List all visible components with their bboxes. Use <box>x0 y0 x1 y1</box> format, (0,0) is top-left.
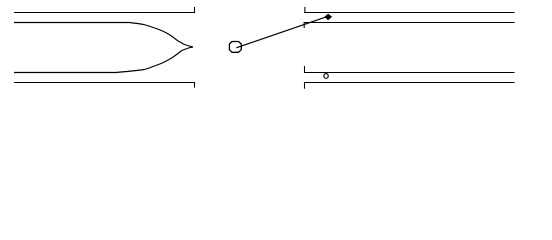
wire: right upper pair, second conductor <box>304 22 515 24</box>
contact diamond (filled) on upper right pair <box>325 14 332 20</box>
right upper first conductor start tick (up) <box>304 7 306 13</box>
right lower first conductor start tick (up) <box>304 66 306 73</box>
wire: left pair upper outer conductor <box>14 12 194 14</box>
wire: left lower outer end tick (down) <box>194 82 196 88</box>
right lower second conductor start tick (down) <box>304 82 306 89</box>
switch pivot circle <box>229 42 241 53</box>
wire: right upper pair, first conductor <box>304 12 515 14</box>
switch blade (from pivot to upper contact) <box>236 16 327 47</box>
right upper second conductor start tick (down) <box>303 22 305 28</box>
wire: left upper outer end tick (up) <box>194 7 196 13</box>
wire: left pair lower inner conductor curving to point <box>14 47 193 73</box>
wire: left pair upper inner conductor curving to point <box>14 23 193 48</box>
wire: right lower pair, first conductor <box>304 72 515 74</box>
wire: left pair lower outer conductor <box>14 82 194 84</box>
wire: right lower pair, second conductor <box>304 82 515 84</box>
lower contact: small open circle under right lower first conductor <box>324 74 328 79</box>
